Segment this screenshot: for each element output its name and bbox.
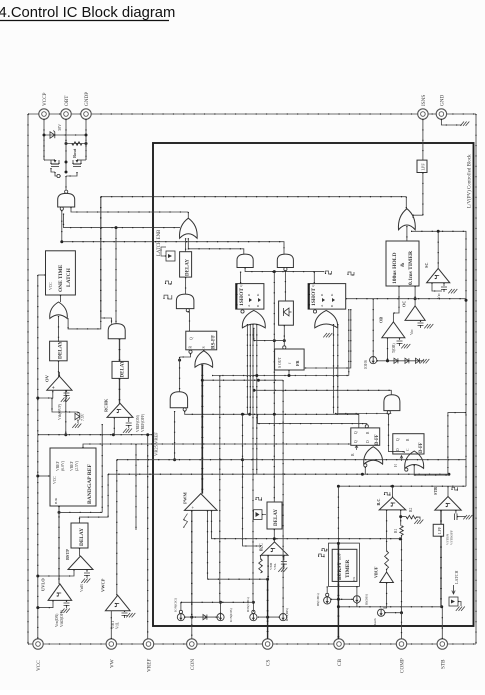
svg-text:D-FF: D-FF: [419, 442, 424, 453]
node: comp 612: [400, 611, 403, 614]
comparator OV: [47, 376, 72, 390]
current source IB(DIS): [353, 596, 360, 603]
node: cb box top: [337, 542, 340, 545]
comparator RCHK: [107, 403, 133, 417]
gate U10 OR under 1SHOT1: [242, 310, 265, 328]
wire: and2 to diode box: [284, 271, 286, 301]
wire: sc ref: [443, 283, 445, 286]
wire: VREF rail y434.7: [38, 434, 152, 436]
svg-text:L/V(PV) Controlled Block: L/V(PV) Controlled Block: [468, 154, 473, 208]
wire: y578 link: [208, 578, 268, 580]
svg-text:TIMER: TIMER: [345, 560, 351, 578]
svg-text:FR: FR: [295, 359, 300, 366]
current source IB(CHG): [324, 597, 331, 604]
wire: x136 vertical: [135, 444, 137, 530]
ground: UVLO ref: [61, 609, 65, 613]
wire: LPF down to OR5: [413, 173, 423, 219]
wire: y617 seg2: [258, 616, 280, 618]
svg-text:S OUT: S OUT: [278, 356, 282, 368]
gate U12 OR5: [398, 209, 415, 230]
svg-text:COMP: COMP: [400, 658, 406, 673]
diode bottom d2: [203, 615, 207, 620]
svg-text:STB: STB: [440, 659, 446, 669]
wires: or2u outputs: [333, 324, 335, 414]
wire: and4 out: [389, 414, 405, 453]
gate U13 AND4: [384, 395, 400, 411]
node: VREF rail left: [64, 433, 67, 436]
current source ION(DIS): [217, 614, 224, 621]
wire: VCC into latch: [38, 274, 46, 276]
svg-text:IDS(CHG): IDS(CHG): [246, 597, 250, 612]
node: con-line: [190, 616, 193, 619]
ground: diode chain: [420, 359, 424, 363]
ground: R2: [414, 520, 418, 524]
gate U7 NAND2: [170, 392, 187, 408]
svg-text:Rout: Rout: [72, 148, 77, 158]
svg-text:VthD(OFF): VthD(OFF): [60, 609, 64, 627]
svg-text:RS-FF: RS-FF: [212, 335, 217, 349]
wire: outer frame left edge: [27, 114, 29, 644]
svg-text:BJR: BJR: [54, 497, 58, 504]
pin OBT: [61, 109, 71, 119]
node: iohs-diode: [386, 359, 389, 362]
ground: ob ref: [401, 344, 405, 348]
node: uvlo rail: [36, 606, 39, 609]
node: y340 a: [273, 339, 276, 342]
wire: outer frame top rail: [28, 113, 476, 115]
gate U5 NAND: [176, 294, 194, 309]
node: rail-RCHK join: [112, 433, 115, 436]
wire: OV plus input: [38, 390, 53, 398]
svg-text:EX: EX: [352, 576, 356, 581]
comparator BC: [379, 497, 406, 510]
current source IDS(CHG): [250, 614, 257, 621]
wire: horizontal into block y197: [101, 196, 407, 198]
svg-text:DELAY: DELAY: [58, 341, 64, 359]
gate U9 AND2: [277, 254, 293, 267]
svg-text:Iastb: Iastb: [373, 618, 377, 625]
svg-text:30V: 30V: [57, 124, 62, 131]
svg-text:D: D: [366, 440, 370, 443]
node: latch drive junction: [60, 240, 63, 243]
pin CS: [262, 639, 272, 649]
wire: VCCP down: [43, 119, 45, 160]
svg-text:VtlL: VtlL: [116, 622, 120, 629]
wire: pwm minus a: [207, 510, 209, 579]
svg-text:LATCH: LATCH: [454, 571, 459, 585]
svg-text:IDS(DIS): IDS(DIS): [285, 608, 289, 621]
node: y375 join: [255, 374, 258, 377]
diode chain to ground: [377, 360, 424, 362]
svg-text:1SHOT: 1SHOT: [239, 288, 245, 306]
svg-text:RCHK: RCHK: [104, 398, 109, 412]
node: driver mid dot: [65, 161, 68, 164]
node: pwm branch: [201, 379, 204, 382]
svg-text:LPF: LPF: [421, 163, 426, 171]
svg-text:Q: Q: [190, 337, 194, 340]
pin GNDP: [81, 109, 91, 119]
sawtooth glyph: [184, 514, 188, 528]
wire: ob ref: [399, 338, 401, 340]
wire: y390 line: [254, 390, 391, 394]
svg-text:VWCP: VWCP: [101, 578, 106, 592]
wire: y617 seg1: [185, 616, 220, 618]
comparator SC: [427, 268, 450, 282]
wire: RCHK left input to rail: [113, 417, 115, 434]
ground: RCHK ref: [123, 429, 127, 433]
wire: sout out: [288, 370, 290, 376]
wire: pwm minus b: [212, 510, 401, 538]
transistor latch pulldown: [449, 597, 458, 606]
ground: VWCP ref: [126, 613, 130, 617]
wire: diode box out: [283, 325, 285, 346]
node: delay5 node: [273, 537, 276, 540]
gate U14 OR under DFF1: [364, 447, 383, 464]
transistor Q1 (high side): [51, 163, 59, 165]
capacitor BSTP ref: [86, 570, 88, 573]
wire: 1shot2 in: [313, 272, 315, 284]
gate U2 OR: [50, 302, 68, 319]
pin CB: [334, 639, 344, 649]
node: GNDP-zener junction: [85, 134, 88, 137]
block: 1SHOT 2: [308, 284, 346, 310]
wire: GNDP down: [85, 119, 87, 160]
node: x174 bottom: [173, 458, 176, 461]
svg-text:VBUF: VBUF: [374, 566, 379, 578]
wire: OBT down: [65, 119, 67, 140]
zener D1 30V clamp: [44, 134, 86, 136]
node: rail486 bc: [391, 485, 394, 488]
svg-text:R2: R2: [409, 507, 413, 512]
node: vcc rail bandgap: [36, 475, 39, 478]
wire: delay5 bottom: [273, 529, 275, 542]
current source IDS(DIS): [280, 614, 287, 621]
capacitor at OV minus: [66, 390, 68, 392]
node: branch380 tap: [257, 379, 260, 382]
node: sout join: [288, 374, 291, 377]
svg-text:CON: CON: [190, 659, 196, 670]
pulse glyphs at burst: [319, 554, 324, 557]
svg-text:VstB: VstB: [80, 584, 84, 592]
wire: bandgap bottom out: [58, 506, 60, 584]
wire: ibdis stem: [356, 603, 358, 607]
svg-text:LATCH: LATCH: [66, 267, 72, 287]
svg-text:ION(DIS): ION(DIS): [229, 608, 233, 622]
pulse glyph right of wire: [326, 271, 332, 274]
wire: 1shot2 B drop: [348, 309, 350, 375]
pin CON: [187, 639, 197, 649]
wire: x222 long: [219, 376, 221, 603]
svg-text:VREF(OFF): VREF(OFF): [141, 413, 145, 432]
capacitor VWCP ref: [124, 611, 126, 612]
gate U1 driver AND: [58, 193, 75, 207]
wire: PWM thick line: [201, 365, 203, 494]
ground: OV ref: [61, 398, 65, 402]
node: VCCP-zener junction: [43, 134, 46, 137]
node: OV input tap: [36, 397, 39, 400]
current source IOHS: [370, 357, 377, 364]
svg-text:IB(CHG): IB(CHG): [316, 593, 320, 606]
wire: cs-c stem: [252, 602, 254, 612]
gate U3 AND: [108, 324, 125, 339]
wire: 1shot2 A drop: [304, 309, 351, 368]
svg-text:GND: GND: [440, 95, 446, 106]
svg-text:STB: STB: [433, 487, 438, 495]
node: timer node: [414, 297, 417, 300]
current source Iastb: [378, 609, 385, 616]
block: DELAY 4: [180, 252, 192, 277]
wire: latch enb feed: [64, 214, 181, 228]
wire: VREF pin up: [147, 435, 149, 639]
wire: x254 long: [252, 324, 254, 602]
node: csc top: [252, 601, 255, 604]
gate U6 OR main: [195, 351, 213, 368]
block: ONE TIME LATCH: [46, 251, 76, 295]
svg-text:IOHS: IOHS: [364, 360, 368, 369]
svg-text:VCC: VCC: [49, 282, 53, 290]
node: ob node: [386, 359, 389, 362]
svg-text:CB: CB: [337, 659, 343, 666]
node: Rout right: [85, 142, 88, 145]
block: diode box A1: [279, 301, 294, 325]
bubble: 1shot1 qbar: [241, 310, 244, 313]
svg-text:R1: R1: [394, 528, 398, 533]
capacitor UVLO ref: [66, 600, 68, 602]
wire: stb ref cap: [455, 510, 457, 513]
transistor Q2 (low side): [73, 163, 81, 165]
buffer VBUF: [380, 572, 394, 583]
comparator OC: [405, 306, 425, 321]
wire: 1shot1 in: [240, 272, 242, 284]
svg-text:100us HOLD: 100us HOLD: [392, 252, 398, 284]
ground: BSTP ref: [81, 579, 85, 583]
wire: rail y486.2: [338, 485, 466, 487]
wire: AND3 out to DELAY2: [119, 339, 121, 362]
svg-text:0.1ms TIMER: 0.1ms TIMER: [408, 250, 414, 285]
wire: sc output up: [437, 231, 439, 268]
comparator BSTP: [68, 556, 93, 570]
ground: stb ref: [463, 515, 467, 519]
zener 7.5V ref: [52, 398, 78, 412]
wire: driver input right branch: [71, 207, 188, 212]
svg-text:BANDGAP REF: BANDGAP REF: [87, 463, 93, 504]
transistor glyph at delay5: [254, 510, 263, 520]
ground: latch: [456, 607, 460, 611]
wire: y340 link: [254, 340, 284, 342]
wire: y197 into OR5: [405, 197, 407, 209]
node: Rout left: [65, 142, 68, 145]
node: rsff-or tap: [178, 359, 181, 362]
node: rail474 a: [361, 473, 364, 476]
pin VCC: [33, 639, 43, 649]
pulse glyph at BC: [385, 492, 390, 495]
wire: burst top: [337, 486, 339, 543]
comparator UVLO: [48, 584, 72, 601]
wire: BSTP out: [38, 570, 74, 577]
block: 1SHOT 1: [236, 284, 264, 310]
wire: ordff2 out: [414, 465, 449, 475]
wire: driver input left branch: [61, 210, 63, 241]
wire: rsff S to OR: [203, 350, 205, 351]
wire: y606 long: [338, 606, 441, 608]
svg-text:VCCP: VCCP: [42, 92, 48, 106]
svg-text:UVLO: UVLO: [41, 578, 46, 591]
wire: into OR top: [187, 212, 189, 218]
svg-text:IB(DIS): IB(DIS): [365, 594, 369, 605]
bubble: 1shot2 qbar: [313, 310, 316, 313]
resistor Rout: [66, 143, 86, 145]
wire: OR4 out into DELAY4: [185, 238, 187, 251]
svg-text:SC: SC: [424, 263, 429, 268]
wire: NAND2 out bus: [185, 411, 359, 428]
svg-text:1SHOT: 1SHOT: [311, 288, 317, 306]
svg-text:T(OB): T(OB): [392, 343, 396, 353]
svg-text:VCC: VCC: [53, 476, 57, 484]
wire: x174.6 segment: [174, 411, 176, 460]
node: y390 tap: [253, 389, 256, 392]
block: D-FF 2: [393, 434, 424, 454]
wire: ob left in to diode chain: [387, 338, 389, 361]
wire: DELAY2 to RCHK: [119, 378, 121, 404]
block: D-FF 1: [365, 425, 368, 428]
svg-text:OB: OB: [379, 317, 384, 323]
node: sc branch: [437, 230, 440, 233]
svg-text:+: +: [192, 506, 197, 509]
wire: gate drive join: [55, 172, 61, 176]
svg-text:(6.0V): (6.0V): [61, 460, 65, 471]
block: BANDGAP REF: [50, 448, 96, 506]
svg-text:S: S: [202, 346, 206, 348]
wire: UVLO left in: [38, 600, 53, 607]
wire: cb line thick: [337, 543, 339, 639]
wire: y599 seg: [331, 598, 354, 600]
wire: y299 long: [346, 298, 466, 300]
resistor R2: [401, 516, 407, 518]
svg-text:LPF: LPF: [437, 526, 442, 534]
resistor vbuf chain: [385, 551, 389, 569]
wire: OV out: [58, 372, 60, 376]
node: cb 599: [337, 598, 340, 601]
capacitor b2c ref: [283, 555, 285, 560]
wire: rail y474.2: [108, 473, 449, 475]
wire: DELAY to OV: [58, 361, 60, 377]
wire: cs-b stem: [220, 602, 222, 613]
svg-text:DELAY: DELAY: [186, 259, 191, 276]
wire: ordff1 out: [364, 467, 366, 474]
wire: sout node to bus: [273, 341, 275, 415]
capacitor RCHK ref: [128, 417, 130, 422]
block: DELAY 1: [50, 341, 68, 361]
wire: oc ref: [420, 320, 422, 322]
wire: bc out up: [392, 486, 394, 497]
node: bus414 a: [241, 413, 244, 416]
node: r1-r2: [399, 515, 402, 518]
node: bus414 b: [248, 413, 251, 416]
wire: x102 vertical: [101, 424, 103, 512]
pulse glyph right of 1shot2: [348, 272, 354, 275]
gate U4 OR latch-enb: [180, 218, 198, 238]
svg-text:Q: Q: [396, 438, 400, 441]
node: rail460-x242: [241, 458, 244, 461]
wire: VWCP input from rail460: [116, 460, 118, 596]
svg-text:VREF: VREF: [147, 659, 153, 672]
pulse glyph near delay: [166, 281, 172, 284]
block: DELAY 2: [112, 361, 128, 378]
svg-text:ISNS: ISNS: [421, 95, 427, 106]
wire: DELAY4 to NAND1: [185, 277, 187, 294]
wire: AND3 inputs: [101, 197, 112, 324]
svg-text:OC: OC: [402, 301, 407, 307]
wire: rail y459.7: [117, 459, 466, 461]
wire: OR out to DELAY: [58, 316, 60, 341]
pin VCCP: [39, 109, 49, 119]
resistor R1: [400, 510, 402, 526]
wire: b2c joint: [267, 578, 270, 580]
wire: sc left in: [432, 283, 442, 291]
wire: DELAY3 to BSTP: [79, 548, 81, 556]
block: LPF 2: [433, 524, 443, 536]
wire: VW pin to VWCP: [110, 611, 112, 639]
wire: bc in from vbuf: [386, 510, 388, 551]
svg-text:VREF: VREF: [70, 461, 74, 471]
svg-text:(2.5V): (2.5V): [75, 460, 79, 471]
svg-text:Q: Q: [354, 440, 358, 443]
node: OV chain tap: [115, 226, 118, 229]
ground: or2u: [323, 333, 327, 337]
pin STB: [437, 639, 447, 649]
node: cs pin node: [266, 616, 269, 619]
ground: b2c ref: [278, 568, 282, 572]
wire: pwm plus down to CON: [191, 510, 193, 617]
node: cb 606: [337, 605, 340, 608]
pulse glyph near NAND1: [164, 295, 172, 299]
pin VREF: [143, 639, 153, 649]
ground: zener ref: [72, 424, 76, 428]
transistor pass glyph: [166, 251, 175, 261]
wire: OR1 out to AND1: [188, 238, 244, 254]
svg-text:Von(ON): Von(ON): [55, 613, 59, 627]
pin COMP: [396, 639, 406, 649]
wire: GND pin to ground: [441, 119, 462, 125]
current source ION(CIG): [177, 614, 184, 621]
block: 100us HOLD 0.1ms TIMER: [386, 241, 419, 286]
gate U8 AND1: [237, 254, 253, 267]
comparator PWM: [184, 494, 217, 511]
svg-text:VBL: VBL: [273, 563, 277, 570]
node: csb top: [219, 601, 222, 604]
wire: VCC to bandgap: [38, 475, 50, 477]
node: b2c tap: [266, 578, 269, 581]
wire: rsff left drop: [180, 353, 191, 357]
svg-text:B.C: B.C: [376, 499, 381, 506]
arrow latch: [452, 585, 455, 594]
comparator OB: [382, 322, 405, 338]
svg-text:4.Control IC Block diagram: 4.Control IC Block diagram: [0, 5, 175, 21]
gate U15 OR under DFF2: [405, 451, 424, 468]
wire: y413 to AND4: [335, 413, 391, 415]
wire: lpf2 down: [440, 536, 442, 607]
wire: stb minus in thick: [440, 510, 442, 524]
svg-text:VREF: VREF: [56, 461, 60, 471]
resistor at b2c: [259, 559, 263, 573]
pin ISNS: [418, 109, 428, 119]
wire: stb out up: [447, 486, 449, 496]
wire: AND1 out: [245, 268, 324, 272]
svg-text:VtH1: VtH1: [111, 621, 115, 629]
svg-text:VREF(ON): VREF(ON): [136, 414, 140, 432]
wire: dff1 input route: [258, 414, 367, 425]
wire: outer frame bottom rail: [28, 643, 476, 645]
